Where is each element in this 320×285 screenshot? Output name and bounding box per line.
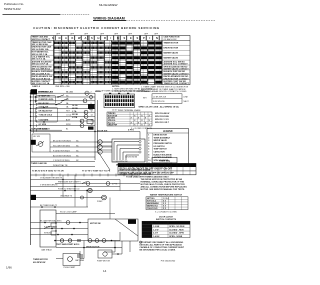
soak cycle loop enclosure <box>35 96 56 104</box>
svg-text:SW 13-14 BK-R 1A: SW 13-14 BK-R 1A <box>32 72 50 75</box>
wire rung 14: motor lead BU 18 <box>31 155 96 157</box>
svg-text:600 RPM 2W: 600 RPM 2W <box>33 262 45 264</box>
capacitor C1 <box>78 239 80 242</box>
svg-text:DOOR SW.: DOOR SW. <box>97 131 108 133</box>
cycle selection table <box>118 163 196 175</box>
agitate solenoid K3 <box>80 119 84 123</box>
svg-text:OPEN: OPEN <box>143 226 149 228</box>
svg-text:SW 9-10 GY-P 1A: SW 9-10 GY-P 1A <box>32 63 49 66</box>
connector P3 <box>31 195 36 200</box>
svg-text:VIEW OF TIMER CONNECTOR SHOWN: VIEW OF TIMER CONNECTOR SHOWN FROM REAR <box>95 90 145 93</box>
part number footer <box>161 260 176 262</box>
header rule left segment <box>3 14 91 16</box>
svg-text:W RUN 5: W RUN 5 <box>44 233 52 235</box>
switch S3 (lid) <box>55 102 62 105</box>
svg-text:1/96: 1/96 <box>6 266 12 270</box>
start switch block <box>63 254 80 270</box>
svg-text:DRIVE MOTOR CONTACT: DRIVE MOTOR CONTACT <box>164 77 190 80</box>
svg-text:R: R <box>104 36 106 40</box>
svg-text:R START SW 4: R START SW 4 <box>44 225 57 228</box>
capacitor C2 <box>75 251 85 262</box>
svg-text:C 7A: C 7A <box>72 110 77 113</box>
wire rung 15: motor lead Y 20 <box>31 160 96 162</box>
timer chart: row separators <box>31 45 190 79</box>
svg-text:DOOR LATCH: DOOR LATCH <box>159 216 173 219</box>
service note paragraph <box>141 178 188 191</box>
wire rung 2: SW <box>30 95 95 98</box>
svg-text:WIRING DIAGRAM: WIRING DIAGRAM <box>93 16 125 20</box>
start relay K5 <box>106 182 118 186</box>
wire rung 4: SW <box>30 102 95 106</box>
svg-text:TEMP SWITCH: TEMP SWITCH <box>154 149 168 151</box>
svg-text:1 2 3 4: 1 2 3 4 <box>163 197 169 200</box>
svg-text:MOTOR SWITCH SHOWN: MOTOR SWITCH SHOWN <box>116 164 141 166</box>
legend item 4: PRESSURE SWITCH <box>148 142 172 145</box>
legend item 10: SPIN SOLENOID <box>148 160 169 162</box>
timer terminal chart title <box>117 109 141 112</box>
label: timer motor block <box>33 259 48 264</box>
svg-text:1M 2M 5M 6M: 1M 2M 5M 6M <box>125 157 138 159</box>
svg-text:PUMP: PUMP <box>97 201 103 203</box>
svg-text:PROT MAIN START AUX 6: PROT MAIN START AUX 6 <box>56 243 79 246</box>
svg-text:LID SWITCH: LID SWITCH <box>154 146 166 148</box>
svg-text:BU LID SW: BU LID SW <box>39 103 49 105</box>
svg-text:SW 1-2 BK-W 8A: SW 1-2 BK-W 8A <box>32 43 49 46</box>
wire: rung to pressure switch <box>55 182 140 184</box>
timer chart: right row labels <box>164 43 190 85</box>
svg-text:SPLICE B R-BU: SPLICE B R-BU <box>155 116 170 118</box>
cycle selection table title <box>113 157 177 163</box>
legend item 2: TIMER ASSEMBLY <box>148 136 171 139</box>
svg-text:2. SHADED AREAS DENOTE CONTACT: 2. SHADED AREAS DENOTE CONTACTS CLOSED <box>141 90 187 93</box>
label: harness connector <box>31 128 48 131</box>
timer chart: cycle boundary lines <box>54 36 162 85</box>
svg-text:PRESSURE SW V EMPTY: PRESSURE SW V EMPTY <box>58 182 82 184</box>
wire rung 10: BLEACH <box>30 128 93 132</box>
svg-text:LID SW: LID SW <box>33 136 40 138</box>
svg-text:L1 BK SPLICE: L1 BK SPLICE <box>153 96 167 98</box>
switch S1 (temperature) <box>57 95 64 98</box>
svg-text:BK 12 MOTOR WDG: BK 12 MOTOR WDG <box>53 140 71 142</box>
svg-text:BLEACH SOLENOID: BLEACH SOLENOID <box>154 153 173 156</box>
svg-text:R WATER LEVEL: R WATER LEVEL <box>39 98 55 101</box>
legend item 8: BLEACH SOLENOID <box>148 153 172 156</box>
svg-text:PUMP MOTOR: PUMP MOTOR <box>97 260 111 262</box>
svg-text:E: E <box>130 36 132 40</box>
svg-text:WATER VALVE: WATER VALVE <box>164 56 179 59</box>
svg-text:TIMER CAM SW: TIMER CAM SW <box>31 162 47 165</box>
timer connector J1 pins row 3 <box>105 103 134 106</box>
wire rung 8: AGITATE <box>30 118 95 122</box>
svg-text:BK CENTRIFUGAL SW 6: BK CENTRIFUGAL SW 6 <box>40 220 61 223</box>
grounding note paragraph <box>139 241 184 252</box>
model number <box>99 3 118 7</box>
svg-text:SW 15-16 W-BU 5A: SW 15-16 W-BU 5A <box>32 77 51 80</box>
vertical tie wire A <box>62 175 64 197</box>
water temperature switch chart title <box>150 194 183 197</box>
svg-text:12: 12 <box>91 111 93 113</box>
cycle table footnote <box>126 176 169 179</box>
svg-text:Y SOIL SW: Y SOIL SW <box>39 107 49 109</box>
timer connector J1 pin numbers <box>112 109 117 111</box>
svg-text:SWITCH CONTACTS: SWITCH CONTACTS <box>156 218 177 221</box>
svg-text:CAUTION: DISCONNECT ELECTRIC C: CAUTION: DISCONNECT ELECTRIC CURRENT BEF… <box>33 26 160 30</box>
lid switch assembly box <box>32 134 50 152</box>
svg-text:Y 20 MOTOR WDG: Y 20 MOTOR WDG <box>53 160 70 162</box>
wire: motor box right drop <box>129 241 131 252</box>
title: WIRING DIAGRAM <box>93 16 215 20</box>
wire: pump return <box>112 241 122 255</box>
svg-text:TIMER SEQ: TIMER SEQ <box>159 160 170 162</box>
timer chart: left row labels <box>32 36 180 86</box>
wire: main line run L1 <box>31 174 141 177</box>
svg-text:TIMER ASSEMBLY: TIMER ASSEMBLY <box>154 136 171 139</box>
drive motor M1 start winding <box>98 145 102 149</box>
svg-text:FAULT: FAULT <box>143 235 150 238</box>
svg-text:TIMER MOTOR: TIMER MOTOR <box>164 43 179 45</box>
thermostat switch S6 <box>89 95 92 110</box>
svg-text:14: 14 <box>103 269 107 273</box>
svg-text:7: 7 <box>148 152 149 154</box>
svg-text:SPLICE D OR-T: SPLICE D OR-T <box>155 122 170 124</box>
motor circuit enclosure box <box>88 219 138 241</box>
wire rung 7: COLD <box>30 114 95 118</box>
terminal strip labels row <box>32 170 111 173</box>
wire: timer to start switch <box>56 258 63 260</box>
svg-text:N W SPLICE: N W SPLICE <box>153 101 165 103</box>
svg-text:SW 3-4 R-BU 10A: SW 3-4 R-BU 10A <box>32 48 49 51</box>
svg-text:COLD/COLD: COLD/COLD <box>147 208 158 210</box>
svg-text:OR VALVE HOT: OR VALVE HOT <box>39 110 54 113</box>
water temp chart footnote <box>155 210 178 213</box>
svg-text:WARM/WARM: WARM/WARM <box>147 202 159 205</box>
svg-text:3: 3 <box>148 140 149 142</box>
svg-text:BU 18 MOTOR WDG: BU 18 MOTOR WDG <box>53 155 71 157</box>
wire: rung through wash lamp <box>56 211 115 214</box>
svg-text:K: K <box>72 36 74 40</box>
label: timer terminals <box>31 162 47 165</box>
line splice detail box <box>143 94 189 104</box>
pump motor block <box>97 250 112 262</box>
svg-text:DRIVE MOTOR: DRIVE MOTOR <box>154 135 168 137</box>
wire: rung to start winding <box>31 225 89 229</box>
svg-text:CAM 1-9: CAM 1-9 <box>32 85 41 88</box>
chart footnotes <box>32 85 153 93</box>
svg-text:T7 GY T8 V T9 BR T10 T T11: T7 GY T8 V T9 BR T10 T T11 PK <box>82 171 111 173</box>
svg-text:BK TIMER 1-2: BK TIMER 1-2 <box>39 92 51 94</box>
svg-text:POS TERM CONTACT STATE: POS TERM CONTACT STATE <box>143 222 169 225</box>
wire rung 6: HOT <box>30 110 95 114</box>
label: door switch <box>97 130 134 133</box>
svg-text:OPEN - NONE: OPEN - NONE <box>169 236 183 238</box>
timer sequence chart: frame <box>31 36 190 85</box>
switch S2 (water level) <box>61 99 68 102</box>
svg-text:1-3 W: 1-3 W <box>153 229 158 231</box>
svg-text:18: 18 <box>91 124 93 126</box>
wire: motor return <box>104 232 120 252</box>
caution note <box>33 26 160 30</box>
wire rung 11: motor lead BK 12 <box>50 140 98 142</box>
svg-text:MLXE42REW: MLXE42REW <box>99 3 118 7</box>
svg-text:SW 17-18 Y-GY 1A: SW 17-18 Y-GY 1A <box>32 82 50 85</box>
timer cam row 2 closure bars <box>54 46 161 49</box>
svg-text:Publication No.: Publication No. <box>4 2 24 6</box>
svg-text:SW 5-6 OR-Y 2A: SW 5-6 OR-Y 2A <box>32 53 48 56</box>
svg-text:R 16 MOTOR WDG: R 16 MOTOR WDG <box>53 150 70 152</box>
svg-text:N: N <box>156 36 158 40</box>
application notes paragraph <box>141 85 189 93</box>
timer chart: minor column grid <box>54 41 160 85</box>
svg-text:DRAIN PMP: DRAIN PMP <box>108 124 118 127</box>
node L2 inner rail wire <box>32 93 34 133</box>
svg-text:BK TIMER FEED T2: BK TIMER FEED T2 <box>40 205 57 207</box>
drain pump motor M3 <box>97 195 106 203</box>
drive motor M2 windings row <box>54 239 120 249</box>
wire colour key heading <box>139 106 180 109</box>
connector P2 <box>31 140 36 145</box>
legend item 7: CAPACITOR <box>148 151 165 154</box>
svg-text:WATER TEMPERATURE SWITCH: WATER TEMPERATURE SWITCH <box>150 194 183 197</box>
svg-text:WARM/COLD: WARM/COLD <box>147 205 159 208</box>
legend item 3: WATER VALVE <box>148 139 167 142</box>
connector P1 (line input) <box>31 89 54 94</box>
wire rung 16: neutral tie <box>31 164 96 167</box>
junction dots on motor rungs <box>44 222 81 236</box>
svg-text:5: 5 <box>148 146 149 148</box>
wire: rung to timer box top <box>31 205 89 208</box>
svg-text:SWITCH CONTACT: SWITCH CONTACT <box>32 38 51 41</box>
svg-text:1-2 BK: 1-2 BK <box>153 226 160 228</box>
wire: start switch to motor <box>80 241 84 259</box>
svg-text:2: 2 <box>91 92 92 94</box>
wire: timer box bottom run <box>56 247 122 249</box>
svg-text:MOTOR SW: MOTOR SW <box>90 223 101 225</box>
wire: rung to run winding <box>31 233 89 235</box>
footer page number <box>103 269 107 273</box>
timer connector J1 body <box>104 93 135 108</box>
spin solenoid K4 <box>80 124 84 128</box>
wire: rung to timer connector <box>95 91 101 93</box>
svg-text:T VALVE COLD: T VALVE COLD <box>39 114 53 117</box>
wire: agitate return run <box>31 177 121 181</box>
svg-text:CLOSED - SPIN: CLOSED - SPIN <box>169 233 184 235</box>
svg-text:5 PTS: 5 PTS <box>128 130 134 132</box>
svg-text:X = CONTACTS CLOSED: X = CONTACTS CLOSED <box>155 210 178 213</box>
svg-text:PUSH TO START BR LID: PUSH TO START BR LID <box>58 188 80 191</box>
wash cycle loop enclosure <box>36 107 58 123</box>
svg-text:S: S <box>52 36 54 40</box>
wire: spin return run <box>31 185 121 188</box>
svg-text:H: H <box>98 36 100 40</box>
node L1 supply bus (left vertical wire) <box>30 90 32 245</box>
svg-text:14: 14 <box>91 115 93 117</box>
svg-text:LINE: LINE <box>184 96 189 98</box>
svg-text:W LID LOCK LAMP: W LID LOCK LAMP <box>60 211 77 214</box>
door latch switch chart <box>142 221 190 238</box>
svg-text:OF EACH SW: OF EACH SW <box>164 38 177 41</box>
wire: pump rung <box>31 195 102 199</box>
water valve solenoid cold K2 <box>84 114 88 118</box>
relay contact K6 <box>87 120 94 130</box>
wire: rung to centrifugal switch <box>31 220 89 223</box>
svg-text:CLOSED - RUN: CLOSED - RUN <box>169 229 184 231</box>
timer terminal chart <box>107 112 152 126</box>
svg-text:P: P <box>143 36 145 40</box>
timer connector J1 pins row 2 <box>105 99 134 102</box>
svg-text:BL: BL <box>66 129 68 131</box>
timer cam row 9 closure bars <box>54 81 161 84</box>
svg-text:AGITATE SOL CONTACT: AGITATE SOL CONTACT <box>164 63 189 66</box>
wire rung 3: LEVEL <box>30 98 95 102</box>
wire rung 13: motor lead R 16 <box>50 150 98 152</box>
svg-text:SW 7-8 T-V 2A: SW 7-8 T-V 2A <box>32 58 46 61</box>
drive motor M1 main winding <box>98 140 102 144</box>
svg-text:CLOSED: CLOSED <box>143 229 152 231</box>
component legend box <box>147 129 189 165</box>
svg-text:6: 6 <box>148 149 149 151</box>
svg-text:S: S <box>91 36 93 40</box>
vertical tie wire C <box>119 180 121 191</box>
wire: bus drop to motor switch <box>98 100 111 170</box>
svg-text:10: 10 <box>148 160 150 162</box>
svg-text:AGITATE SOLENOID: AGITATE SOLENOID <box>154 156 173 159</box>
svg-text:W NEUTRAL TIE: W NEUTRAL TIE <box>53 164 68 167</box>
svg-text:NO 9B: NO 9B <box>72 114 78 116</box>
svg-text:SW 11-12 BR-W 1A: SW 11-12 BR-W 1A <box>32 68 51 71</box>
svg-text:W 14 MOTOR WDG: W 14 MOTOR WDG <box>53 145 71 147</box>
svg-text:OPEN - NO RUN: OPEN - NO RUN <box>169 226 185 228</box>
svg-text:COLD: COLD <box>66 115 72 117</box>
legend item 5: LID SWITCH <box>148 146 165 148</box>
buzzer B1 <box>85 91 89 95</box>
svg-text:8: 8 <box>148 154 149 156</box>
svg-text:PUSH START: PUSH START <box>64 266 77 269</box>
svg-text:2: 2 <box>148 137 149 139</box>
svg-text:5 PTS: 5 PTS <box>112 183 118 185</box>
indicator lamp DS1 <box>83 99 87 103</box>
wire rung 9: SPIN <box>30 124 95 127</box>
svg-text:W TEMP SW: W TEMP SW <box>39 95 50 97</box>
svg-text:SPLICE A BK-W: SPLICE A BK-W <box>155 112 169 115</box>
wire rung 5: SW <box>30 106 95 110</box>
wire: rung to water valve <box>31 188 141 192</box>
timer terminal chart row labels <box>108 113 151 127</box>
timer chart: top interval labels <box>56 34 159 36</box>
svg-text:NEUT: NEUT <box>184 101 190 103</box>
node N return bus (right vertical wire) <box>94 93 96 160</box>
svg-text:GY SPIN: GY SPIN <box>39 124 47 126</box>
svg-text:PRESSURE SWITCH: PRESSURE SWITCH <box>154 143 173 145</box>
motor switch detail caption <box>116 164 141 166</box>
legend item 1: DRIVE MOTOR <box>148 135 167 137</box>
splice note lines <box>155 112 170 124</box>
svg-text:SPIN: SPIN <box>66 124 71 126</box>
overload protector OL1 <box>72 104 95 119</box>
wire rung 1: 1-2 <box>30 91 95 95</box>
wash lamp DS2 <box>88 188 92 192</box>
svg-text:CAM STACK: CAM STACK <box>41 249 53 252</box>
timer cam row 3 closure bars <box>54 51 161 54</box>
svg-text:TIMER TERMINAL USAGE: TIMER TERMINAL USAGE <box>117 109 141 112</box>
timer connector J1 pins row 1 <box>105 95 134 98</box>
svg-text:P/N 134055900: P/N 134055900 <box>161 260 176 262</box>
svg-text:V AGITATE: V AGITATE <box>39 118 49 121</box>
svg-text:1: 1 <box>148 135 149 137</box>
pressure switch S4 <box>82 182 90 186</box>
svg-text:HARNESS CONN: HARNESS CONN <box>31 128 48 131</box>
svg-text:TIMER MOTOR CONTACT: TIMER MOTOR CONTACT <box>164 82 190 85</box>
timer cam row 4 closure bars <box>54 56 161 59</box>
svg-text:GY AGITATE RETURN T9: GY AGITATE RETURN T9 <box>40 177 62 180</box>
svg-text:CAPACITOR: CAPACITOR <box>154 151 166 154</box>
svg-text:9: 9 <box>148 157 149 159</box>
vertical tie wire B <box>74 175 76 207</box>
svg-text:6: 6 <box>91 99 92 101</box>
water temperature switch chart <box>146 197 188 210</box>
svg-text:WATER VALVE: WATER VALVE <box>164 52 179 55</box>
timer mechanism box <box>40 210 57 252</box>
door latch switch chart title <box>156 216 177 222</box>
timer cam row 5 closure bars <box>54 61 161 64</box>
svg-text:WATER VALVE CONTACT: WATER VALVE CONTACT <box>164 68 190 71</box>
centrifugal switch S5 <box>66 221 70 225</box>
timer cam row 8 closure bars <box>54 76 161 79</box>
timer motor TM <box>98 150 102 154</box>
svg-text:LEGEND: LEGEND <box>163 131 173 133</box>
wire: winding commons to switch box <box>102 142 112 152</box>
svg-text:S: S <box>124 36 126 40</box>
svg-text:12 34: 12 34 <box>112 109 117 111</box>
svg-text:DRIVE MOTOR: DRIVE MOTOR <box>164 48 179 50</box>
svg-text:WATER VALVE CONTACT: WATER VALVE CONTACT <box>164 72 190 75</box>
legend item 9: AGITATE SOLENOID <box>148 156 172 159</box>
timer connector J1 title <box>95 90 145 93</box>
svg-text:8A CAM: 8A CAM <box>66 91 73 94</box>
lid switch contact <box>36 142 44 147</box>
timer chart: header cycle labels and ticks <box>31 36 190 41</box>
svg-text:WIRE COLOR CODE - ALL WIRING 1: WIRE COLOR CODE - ALL WIRING 18 GA. <box>139 106 180 109</box>
svg-text:SPLICE C Y-GY: SPLICE C Y-GY <box>155 119 169 121</box>
svg-text:LOCKED: LOCKED <box>143 233 152 235</box>
timer cam row 1 closure bars <box>54 42 161 45</box>
svg-text:ONE REV = 360: ONE REV = 360 <box>55 86 71 88</box>
legend item 11: PUSH TO START SW <box>148 162 172 165</box>
svg-text:TM: TM <box>98 152 101 154</box>
timer cam row 7 closure bars <box>54 71 161 74</box>
svg-text:A: A <box>85 36 87 40</box>
svg-text:V SPIN RETURN T8: V SPIN RETURN T8 <box>40 185 57 187</box>
svg-text:2-3 R: 2-3 R <box>153 233 158 235</box>
publication number note <box>4 2 24 11</box>
wire: crossover to motor switch <box>31 131 141 139</box>
svg-text:T1 BK T2 W T3 R T4 BU T5 Y: T1 BK T2 W T3 R T4 BU T5 Y T6 OR <box>32 170 64 173</box>
svg-text:BE GROUNDED PER LOCAL CODES.: BE GROUNDED PER LOCAL CODES. <box>140 249 177 252</box>
svg-text:A: A <box>65 36 67 40</box>
footer date <box>6 266 12 270</box>
svg-text:O: O <box>59 36 61 40</box>
svg-text:8: 8 <box>91 103 92 105</box>
terminal chart footnote <box>131 127 153 130</box>
svg-text:OR DRAIN T6: OR DRAIN T6 <box>60 195 72 198</box>
svg-text:S: S <box>137 36 139 40</box>
wire rung 12: motor lead W 14 <box>50 145 98 147</box>
vertical tie wire D <box>86 190 110 219</box>
timer cam row 6 closure bars <box>54 66 161 69</box>
svg-text:WATER VALVE: WATER VALVE <box>154 139 168 142</box>
svg-text:MOTOR. SEE SERVICE MANUAL FOR: MOTOR. SEE SERVICE MANUAL FOR TESTS. <box>141 188 186 191</box>
motor switch detail box <box>98 139 146 162</box>
svg-text:5995271462: 5995271462 <box>4 7 21 11</box>
